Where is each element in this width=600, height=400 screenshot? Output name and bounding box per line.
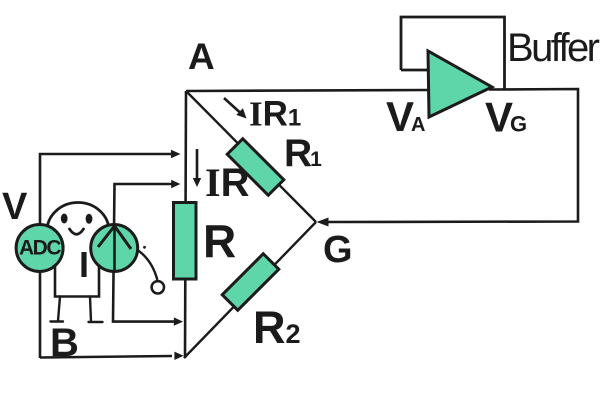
resistor R [174,203,197,280]
svg-text:R1: R1 [284,132,322,175]
wire diagonal A-G [186,91,316,222]
character head [47,203,109,260]
wire outer loop top (V to node) [40,154,173,358]
buffer op-amp U1 [428,51,492,117]
current arrow IR [193,149,201,187]
current source I [91,225,138,272]
wire A to buffer top [186,90,430,91]
svg-text:IR1: IR1 [249,95,301,134]
wire buffer output to G [327,89,578,222]
svg-text:IR: IR [205,160,250,205]
arrowhead outer top [171,150,181,158]
balloon arm [138,246,158,280]
svg-text:VG: VG [485,94,527,141]
current arrow IR1 [224,98,247,119]
arrowhead outer bottom [174,352,183,360]
svg-text:R: R [203,215,236,267]
svg-text:VA: VA [386,93,425,140]
buffer box [401,17,505,90]
wire A-B vertical [185,91,186,358]
svg-text:Buffer: Buffer [507,26,600,70]
resistor R1 [227,139,284,196]
arrowhead inner top [171,180,180,188]
svg-text:R2: R2 [253,302,301,353]
arrowhead into G [317,218,329,227]
resistor R2 [222,254,279,311]
svg-text:G: G [323,229,353,271]
voltmeter ADC [16,225,63,272]
svg-text:V: V [2,186,28,228]
character legs [51,297,103,323]
svg-text:A: A [188,36,215,77]
wire outer loop bottom [40,356,172,358]
character body [55,249,99,297]
svg-text:I: I [79,244,89,285]
svg-text:ADC: ADC [19,237,61,260]
wire inner loop [113,184,175,322]
arrowhead inner bottom [174,317,183,325]
balloon [152,281,164,293]
svg-text:B: B [50,321,79,365]
wire diagonal B-G [184,222,316,358]
